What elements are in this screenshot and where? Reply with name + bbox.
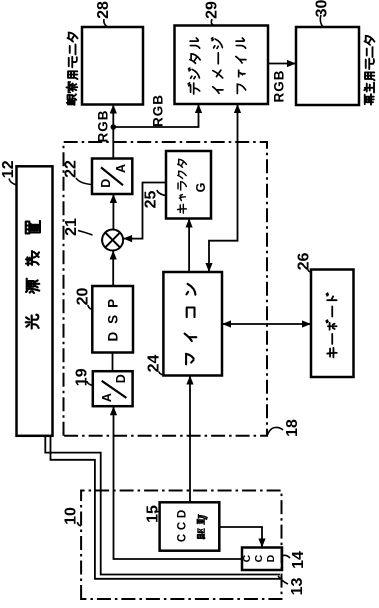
svg-text:20: 20 xyxy=(75,288,92,306)
svg-text:C: C xyxy=(177,534,189,542)
svg-text:D: D xyxy=(114,374,128,383)
svg-text:RGB: RGB xyxy=(96,110,111,143)
svg-text:13: 13 xyxy=(289,578,306,596)
svg-text:A: A xyxy=(114,164,128,173)
svg-text:S: S xyxy=(106,315,121,324)
svg-text:30: 30 xyxy=(314,0,331,17)
svg-text:12: 12 xyxy=(0,160,17,178)
svg-text:D: D xyxy=(177,510,189,518)
svg-text:D: D xyxy=(265,554,277,562)
svg-text:18: 18 xyxy=(284,419,301,437)
svg-text:29: 29 xyxy=(204,1,221,19)
svg-text:19: 19 xyxy=(74,368,91,386)
svg-text:D: D xyxy=(99,179,113,188)
svg-text:P: P xyxy=(106,299,121,308)
svg-text:22: 22 xyxy=(63,160,80,178)
svg-text:15: 15 xyxy=(145,505,162,523)
svg-text:24: 24 xyxy=(146,355,163,373)
svg-text:RGB: RGB xyxy=(272,70,287,103)
svg-text:21: 21 xyxy=(63,218,80,236)
svg-text:28: 28 xyxy=(95,1,112,19)
svg-text:14: 14 xyxy=(290,551,307,569)
svg-text:D: D xyxy=(106,331,121,341)
svg-text:C: C xyxy=(177,522,189,530)
svg-text:C: C xyxy=(253,554,265,562)
svg-text:26: 26 xyxy=(296,253,313,271)
svg-text:RGB: RGB xyxy=(151,94,166,127)
svg-text:25: 25 xyxy=(143,191,160,209)
svg-text:G: G xyxy=(194,183,208,193)
svg-text:A: A xyxy=(100,393,114,402)
svg-text:C: C xyxy=(241,554,253,562)
svg-text:10: 10 xyxy=(63,507,80,525)
